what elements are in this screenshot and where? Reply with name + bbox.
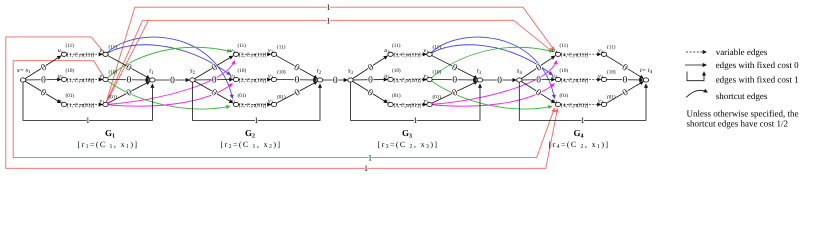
svg-text:u3: u3 [384, 98, 390, 104]
node u2(11) [233, 52, 238, 56]
svg-text:shortcut edges have cost 1/2: shortcut edges have cost 1/2 [687, 118, 788, 128]
svg-text:v3: v3 [424, 98, 430, 104]
node s3 [348, 78, 353, 82]
svg-text:0: 0 [368, 76, 373, 86]
edge s3->u3(10) cost 0 [351, 79, 388, 82]
svg-text:(01): (01) [238, 93, 247, 99]
shortcut edge v1(10)->u2(11) green [106, 47, 232, 79]
edge v1(11)->t1 cost 0 [108, 56, 150, 79]
node t1 [150, 78, 155, 82]
svg-text:(11): (11) [607, 44, 616, 50]
svg-text:(10): (10) [277, 70, 286, 76]
edge t3->s4 cost 0 [483, 79, 517, 81]
svg-text:edges with fixed cost 1: edges with fixed cost 1 [716, 74, 799, 84]
svg-text:[4, C2π(01)]: [4, C2π(01)] [561, 103, 588, 109]
svg-text:u4: u4 [552, 48, 558, 54]
shortcut edge v1(11)->u2(01) blue [106, 37, 233, 98]
variable edge u2(11)->v2(11) dashed [239, 53, 272, 55]
variable edge u2(10)->v2(10) dashed [239, 79, 272, 81]
svg-text:(10): (10) [238, 68, 247, 74]
svg-text:[4, C2π(10)]: [4, C2π(10)] [561, 78, 588, 84]
node u1(11) [61, 52, 66, 56]
shortcut edge v1(10)->u4(01) red inner loop, cost 1 [13, 61, 554, 158]
shortcut edge v1(01)->u2(10) magenta [106, 84, 233, 107]
svg-text:u3: u3 [384, 73, 390, 79]
svg-text:u4: u4 [552, 98, 558, 104]
svg-text:[3, C2π(10)]: [3, C2π(10)] [394, 78, 421, 84]
svg-text:(10): (10) [607, 70, 616, 76]
svg-text:v2: v2 [268, 98, 274, 104]
svg-text:[2, C1π(10)]: [2, C1π(10)] [239, 78, 266, 84]
node v4(11) [601, 52, 606, 56]
variable edge u4(10)->v4(10) dashed [561, 79, 602, 81]
svg-text:(01): (01) [560, 93, 569, 99]
svg-text:[1, C1π(01)]: [1, C1π(01)] [67, 103, 94, 109]
svg-text:v1: v1 [100, 98, 106, 104]
shortcut edge v1(01)->u4(11) red outer-top, cost 1 [106, 7, 555, 104]
edge v2(10)->t2 cost 0 [277, 79, 318, 82]
edge s1->u1(01) cost 0 [23, 80, 61, 103]
node v4(01) [601, 102, 606, 106]
svg-text:u2: u2 [230, 48, 236, 54]
svg-text:0: 0 [623, 76, 628, 86]
svg-text:0: 0 [212, 76, 217, 86]
svg-text:(01): (01) [109, 95, 118, 101]
edge s4->u4(01) cost 0 [519, 80, 555, 103]
edge s2->u2(11) cost 0 [193, 56, 234, 80]
node t4 [643, 78, 648, 82]
svg-text:(10): (10) [109, 70, 118, 76]
edge s2->u2(10) cost 0 [193, 79, 234, 82]
edge s4->t4 cost 1 bottom rectangle [519, 82, 646, 120]
svg-text:v4: v4 [598, 73, 604, 79]
svg-text:(01): (01) [66, 93, 75, 99]
edge v3(01)->t3 cost 0 [432, 81, 478, 103]
svg-text:(11): (11) [392, 43, 401, 49]
svg-text:1: 1 [254, 115, 258, 125]
edge v3(10)->t3 cost 0 [432, 79, 477, 82]
svg-text:0: 0 [170, 76, 175, 86]
variable edge u1(01)->v1(01) dashed [67, 104, 103, 106]
svg-text:0: 0 [452, 76, 457, 86]
variable edge u4(11)->v4(11) dashed [561, 53, 602, 55]
node v2(01) [271, 102, 276, 106]
node u3(01) [388, 102, 393, 106]
node u4(11) [555, 52, 560, 56]
svg-text:0: 0 [41, 76, 46, 86]
svg-text:u1: u1 [58, 98, 64, 104]
svg-text:1: 1 [368, 152, 372, 162]
svg-text:(11): (11) [433, 44, 442, 50]
svg-text:edges with fixed cost 0: edges with fixed cost 0 [716, 60, 799, 70]
svg-text:shortcut edges: shortcut edges [716, 91, 768, 101]
edge s3->t3 cost 1 bottom rectangle [351, 82, 481, 120]
svg-text:v4: v4 [598, 48, 604, 54]
svg-text:0: 0 [127, 76, 132, 86]
variable edge u3(11)->v3(11) dashed [393, 53, 427, 55]
node u3(10) [388, 77, 393, 81]
variable edge u4(01)->v4(01) dashed [561, 104, 602, 106]
node u1(01) [61, 102, 66, 106]
svg-text:u3: u3 [384, 48, 390, 54]
node s4 [517, 78, 522, 82]
svg-text:(11): (11) [66, 43, 75, 49]
svg-text:v4: v4 [598, 98, 604, 104]
svg-text:Unless otherwise specified, th: Unless otherwise specified, the [687, 108, 799, 118]
variable edge u3(10)->v3(10) dashed [393, 79, 427, 81]
svg-text:[4, C2π(11)]: [4, C2π(11)] [561, 53, 588, 59]
node v3(11) [427, 52, 432, 56]
shortcut edge v3(01)->u4(11) magenta [430, 61, 557, 105]
svg-text:1: 1 [581, 115, 585, 125]
svg-text:(11): (11) [277, 44, 286, 50]
shortcut edge v1(11)->u4(01) red outer loop, cost 1 [6, 37, 558, 168]
edge s1->u1(11) cost 0 [23, 56, 61, 80]
svg-text:u1: u1 [58, 48, 64, 54]
svg-text:(01): (01) [607, 95, 616, 101]
node v2(10) [271, 77, 276, 81]
svg-text:v3: v3 [424, 48, 430, 54]
edge v3(11)->t3 cost 0 [432, 56, 478, 79]
shortcut edge v3(10)->u4(11) green [430, 47, 554, 79]
node u2(10) [233, 77, 238, 81]
svg-text:(01): (01) [392, 93, 401, 99]
edge v1(10)->t1 cost 0 [108, 79, 149, 82]
variable edge u1(11)->v1(11) dashed [67, 53, 103, 55]
svg-text:(01): (01) [277, 95, 286, 101]
svg-text:[3, C2π(11)]: [3, C2π(11)] [394, 53, 421, 59]
svg-text:(11): (11) [238, 43, 247, 49]
svg-text:(11): (11) [560, 43, 569, 49]
edge s2->u2(01) cost 0 [193, 80, 234, 103]
svg-text:1: 1 [86, 115, 90, 125]
edge s3->u3(01) cost 0 [351, 80, 388, 103]
svg-text:v2: v2 [268, 48, 274, 54]
svg-text:1: 1 [326, 15, 330, 25]
svg-text:(10): (10) [66, 68, 75, 74]
edge v1(01)->t1 cost 0 [108, 81, 150, 103]
node t3 [477, 78, 482, 82]
edge t1->s2 cost 0 [155, 79, 190, 81]
node u1(10) [61, 77, 66, 81]
svg-text:0: 0 [295, 76, 300, 86]
svg-text:variable edges: variable edges [716, 47, 768, 57]
svg-text:[2, C1π(01)]: [2, C1π(01)] [239, 103, 266, 109]
edge s1->u1(10) cost 0 [23, 79, 61, 82]
edge s4->u4(10) cost 0 [519, 79, 555, 82]
svg-text:0: 0 [333, 76, 338, 86]
legend variable edge symbol [686, 51, 707, 53]
svg-text:(10): (10) [560, 68, 569, 74]
edge v4(10)->t4 cost 0 [607, 79, 644, 82]
svg-text:v1: v1 [100, 48, 106, 54]
node u4(01) [555, 102, 560, 106]
edge t2->s3 cost 0 [323, 79, 348, 81]
edge v2(01)->t2 cost 0 [277, 81, 318, 103]
edge v4(11)->t4 cost 0 [607, 56, 644, 79]
svg-text:u1: u1 [58, 73, 64, 79]
svg-text:0: 0 [497, 76, 502, 86]
shortcut edge v1(11)->u2(10) blue [106, 45, 231, 75]
legend fixed cost 1 symbol [687, 72, 704, 81]
edge s4->u4(11) cost 0 [519, 56, 555, 80]
node t2 [317, 78, 322, 82]
svg-text:u2: u2 [230, 98, 236, 104]
svg-text:[2, C1π(11)]: [2, C1π(11)] [239, 53, 266, 59]
legend fixed cost 0 symbol [685, 64, 707, 66]
svg-text:1: 1 [364, 163, 368, 173]
edge v4(01)->t4 cost 0 [607, 81, 644, 103]
edge s2->t2 cost 1 bottom rectangle [193, 82, 321, 120]
variable edge u1(10)->v1(10) dashed [67, 79, 103, 81]
node v1(10) [103, 77, 108, 81]
svg-text:(01): (01) [433, 95, 442, 101]
svg-text:u4: u4 [552, 73, 558, 79]
shortcut edge v3(10)->u4(01) green [430, 80, 553, 109]
svg-text:v1: v1 [100, 73, 106, 79]
svg-text:1: 1 [326, 2, 330, 12]
svg-text:0: 0 [536, 76, 541, 86]
node u4(10) [555, 77, 560, 81]
node v2(11) [271, 52, 276, 56]
red fan strand from v1(01) [106, 20, 149, 104]
node s2 [190, 78, 195, 82]
node s1 [20, 78, 25, 82]
shortcut edge v3(11)->u4(10) blue [430, 45, 553, 75]
svg-text:[1, C1π(10)]: [1, C1π(10)] [67, 78, 94, 84]
variable edge u2(01)->v2(01) dashed [239, 104, 272, 106]
shortcut edge v1(01)->u2(11) magenta [106, 61, 235, 105]
variable edge u3(01)->v3(01) dashed [393, 104, 427, 106]
node u3(11) [388, 52, 393, 56]
svg-text:(10): (10) [392, 68, 401, 74]
edge s3->u3(11) cost 0 [351, 56, 388, 80]
svg-text:(10): (10) [433, 70, 442, 76]
node v1(01) [103, 102, 108, 106]
node v4(10) [601, 77, 606, 81]
shortcut edge v1(10)->u2(01) green [106, 80, 231, 109]
svg-text:[1, C1π(11)]: [1, C1π(11)] [67, 53, 94, 59]
edge s1->t1 cost 1 bottom rectangle [23, 82, 152, 120]
svg-text:u2: u2 [230, 73, 236, 79]
shortcut edge v3(01)->u4(10) magenta [430, 84, 555, 107]
svg-text:(11): (11) [109, 44, 118, 50]
shortcut edge v1(01)->u4(11) red inner-top, cost 1 [106, 20, 553, 104]
node v3(01) [427, 102, 432, 106]
node v1(11) [103, 52, 108, 56]
svg-text:v2: v2 [268, 73, 274, 79]
svg-text:v3: v3 [424, 73, 430, 79]
node u2(01) [233, 102, 238, 106]
shortcut edge v3(11)->u4(01) blue [430, 37, 555, 98]
legend shortcut edge symbol [686, 90, 708, 97]
node v3(10) [427, 77, 432, 81]
edge v2(11)->t2 cost 0 [277, 56, 318, 79]
svg-text:[3, C2π(01)]: [3, C2π(01)] [394, 103, 421, 109]
svg-text:1: 1 [413, 115, 417, 125]
